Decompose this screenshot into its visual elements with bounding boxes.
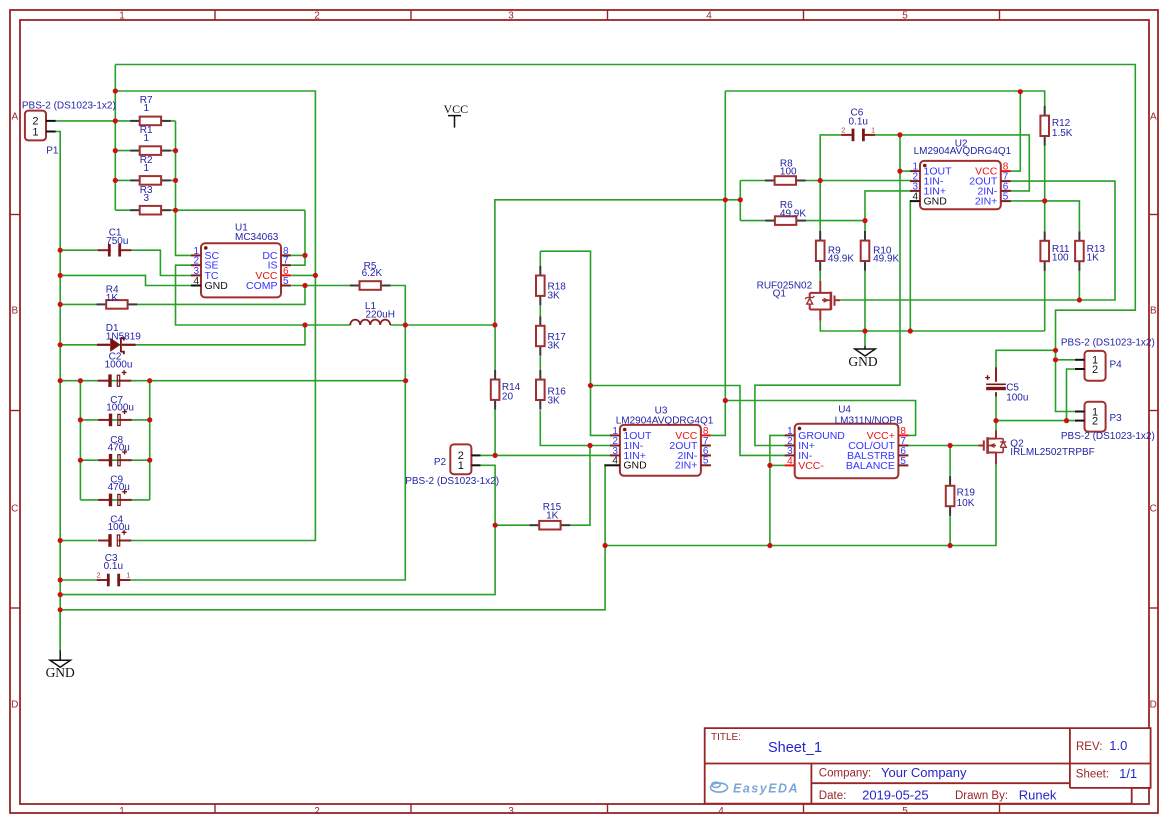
resistor R11 (1044, 231, 1046, 241)
wire P3 pin2 row (996, 420, 1075, 422)
wire C1 row left (60, 249, 98, 251)
wire P4 pin2 riser (1067, 369, 1075, 421)
wire R2 row (115, 179, 175, 181)
resistor R1 (130, 150, 140, 152)
svg-text:2: 2 (97, 570, 101, 579)
svg-text:100: 100 (780, 167, 797, 178)
wire R3 to U1 IS pin7 (291, 210, 305, 265)
resistor R14 (494, 370, 496, 380)
wire row91 / VCC rail x315 (115, 91, 315, 541)
svg-text:B: B (1150, 306, 1157, 317)
svg-text:1K: 1K (546, 511, 559, 522)
svg-text:3: 3 (508, 806, 514, 817)
svg-text:LM2904AVQDRG4Q1: LM2904AVQDRG4Q1 (914, 146, 1012, 157)
wire U2 pin1 stub link (900, 170, 912, 172)
svg-text:LM2904AVQDRG4Q1: LM2904AVQDRG4Q1 (616, 415, 714, 426)
svg-text:3: 3 (144, 193, 150, 204)
svg-text:IRLML2502TRPBF: IRLML2502TRPBF (1010, 447, 1094, 458)
wire R10 column / U2 pin3 (865, 191, 912, 331)
svg-text:A: A (1150, 112, 1157, 123)
resistor R17 (539, 316, 541, 326)
wire U4 VCC- pin4 link (770, 464, 786, 466)
wire U2 GND pin4 riser (910, 201, 911, 331)
resistor R5 (350, 285, 360, 287)
svg-text:1: 1 (144, 163, 150, 174)
wire GND row y545 to Q2 source (605, 464, 996, 545)
wire U1 SC pin1 riser (176, 210, 192, 255)
svg-text:49.9K: 49.9K (780, 209, 806, 220)
svg-text:1000u: 1000u (105, 360, 133, 371)
wire P4 pin1 branch (1056, 359, 1075, 361)
svg-text:1K: 1K (1087, 253, 1100, 264)
wire R3 row (115, 209, 305, 211)
svg-text:2019-05-25: 2019-05-25 (862, 788, 929, 803)
capacitor C7 (98, 419, 111, 421)
svg-text:Sheet:: Sheet: (1076, 769, 1109, 781)
resistor R9 (819, 231, 821, 241)
svg-text:PBS-2 (DS1023-1x2): PBS-2 (DS1023-1x2) (405, 476, 499, 487)
svg-text:BALANCE: BALANCE (846, 460, 895, 472)
svg-text:1.5K: 1.5K (1052, 128, 1073, 139)
svg-text:0.1u: 0.1u (849, 117, 868, 128)
resistor R6 (765, 220, 775, 222)
power VCC symbol (448, 116, 461, 128)
svg-text:3K: 3K (548, 341, 561, 352)
svg-text:10K: 10K (957, 498, 975, 509)
wire R4 row left (60, 303, 98, 305)
svg-text:4: 4 (706, 10, 712, 21)
svg-text:VCC: VCC (443, 102, 468, 116)
wire U3 GND pin4 riser / row610 (60, 466, 605, 610)
wire R11 bottom to GND row (1044, 271, 1046, 331)
svg-text:20: 20 (502, 392, 514, 403)
svg-text:C: C (11, 504, 18, 515)
wire U3 1OUT row to U4 IN- (591, 386, 786, 456)
svg-text:PBS-2 (DS1023-1x2): PBS-2 (DS1023-1x2) (1061, 431, 1155, 442)
wire R4 to U1 COMP pin5 (136, 286, 305, 305)
wire GND stem bottom left (59, 610, 61, 651)
wire rail x60 to U1 GND pin4 (60, 275, 191, 285)
wire R14 column (494, 325, 496, 455)
wire C1 to U1 TC pin3 (131, 250, 192, 275)
svg-text:D: D (1150, 700, 1157, 711)
inductor L1 220uH (350, 320, 390, 325)
wire C5 top branch (996, 350, 1056, 367)
svg-text:5: 5 (902, 806, 908, 817)
wire row91 right segment to R12 (725, 91, 1044, 106)
wire ladder right column (175, 121, 177, 210)
resistor R8 (765, 180, 775, 182)
connector P1 (25, 111, 46, 141)
wire left rail x115 (114, 65, 116, 211)
transistor Q1 RUF025N02 (819, 281, 821, 293)
svg-text:1: 1 (32, 126, 38, 138)
wire C8 row (80, 459, 149, 461)
wire R11 top (1044, 201, 1046, 231)
svg-text:100u: 100u (108, 522, 130, 533)
svg-text:470u: 470u (108, 443, 130, 454)
wire C3 row left (60, 579, 101, 581)
wire U2 2OUT to Q1 gate (840, 181, 1115, 300)
capacitor C1 (98, 249, 111, 251)
svg-text:5: 5 (900, 456, 906, 467)
wire U2 2IN+ row / R13 bracket (1010, 201, 1080, 231)
capacitor C4 (98, 540, 111, 542)
svg-text:Company:: Company: (819, 768, 871, 780)
wire U4 VCC+ bracket (725, 401, 915, 436)
svg-text:49.9K: 49.9K (828, 254, 854, 265)
diode D1 1N5819 (97, 344, 110, 346)
svg-text:1000u: 1000u (106, 403, 134, 414)
svg-text:GND: GND (848, 354, 877, 369)
svg-text:P2: P2 (434, 457, 447, 468)
resistor R16 (539, 370, 541, 380)
wire R13 bottom to 2OUT net (1078, 271, 1080, 300)
wire U4 COL/OUT pin7 to Q2 gate (907, 445, 982, 447)
connector P2 (450, 444, 471, 474)
svg-text:REV:: REV: (1076, 741, 1102, 753)
svg-text:GND: GND (623, 460, 647, 472)
capacitor C6 (841, 134, 854, 136)
wire U1 SE pin2 to L1 row (176, 265, 351, 325)
capacitor C2 (98, 380, 111, 382)
svg-text:U4: U4 (838, 405, 851, 416)
wire rail x725 to U3 VCC pin8 (711, 91, 725, 435)
svg-text:GND: GND (205, 280, 229, 292)
capacitor C3 (97, 579, 110, 581)
wire P1 pin1 to left GND rail x60 (55, 132, 60, 651)
wire R18-R17 link (539, 306, 541, 316)
svg-text:P4: P4 (1110, 359, 1123, 370)
svg-text:PBS-2 (DS1023-1x2): PBS-2 (DS1023-1x2) (1061, 337, 1155, 348)
svg-text:1: 1 (119, 10, 125, 21)
svg-text:4: 4 (193, 276, 199, 287)
svg-text:0.1u: 0.1u (104, 561, 123, 572)
capacitor C9 (98, 499, 111, 501)
wire U4 GROUND pin1 riser (770, 435, 786, 545)
wire R8/R6 bracket (739, 181, 741, 221)
svg-text:P3: P3 (1110, 413, 1123, 424)
svg-text:4: 4 (912, 192, 918, 203)
wire P2 pin2 row to U3 1IN+ (480, 454, 612, 456)
svg-text:1N5819: 1N5819 (106, 331, 141, 342)
svg-text:Drawn By:: Drawn By: (955, 790, 1008, 802)
wire C4 row left (60, 540, 97, 542)
wire D1 row left (60, 344, 97, 346)
svg-text:EasyEDA: EasyEDA (733, 782, 799, 796)
wire R17-R16 link (539, 356, 541, 370)
svg-text:MC34063: MC34063 (235, 232, 279, 243)
svg-text:2: 2 (841, 125, 845, 134)
svg-text:Your Company: Your Company (881, 765, 967, 780)
wire cap bank left column (79, 381, 81, 500)
svg-text:2: 2 (314, 10, 320, 21)
resistor R4 (97, 303, 107, 305)
svg-text:220uH: 220uH (366, 309, 395, 320)
svg-text:P1: P1 (46, 145, 59, 156)
wire cap bank right column (149, 381, 151, 500)
wire R16 bottom to 1IN- bracket (540, 410, 590, 445)
wire R1 row (115, 150, 175, 152)
svg-text:Sheet_1: Sheet_1 (768, 740, 822, 756)
op-amp U4 LM311N/NOPB (795, 424, 899, 479)
svg-text:100u: 100u (1006, 392, 1028, 403)
op-amp U2 LM2904AVQDRG4Q1 (920, 161, 1001, 209)
wire C9 row (80, 499, 149, 501)
resistor R19 (949, 476, 951, 486)
svg-text:1: 1 (144, 133, 150, 144)
wire R18 top lead (539, 251, 541, 266)
svg-text:2: 2 (1092, 415, 1098, 427)
EasyEDA logo (711, 782, 728, 792)
svg-text:49.9K: 49.9K (873, 254, 899, 265)
resistor R3 (130, 209, 140, 211)
wire Q1 source to GND row (820, 321, 1044, 331)
svg-text:GND: GND (924, 196, 948, 208)
connector P3 (1085, 402, 1106, 432)
svg-text:D: D (11, 700, 18, 711)
svg-text:COMP: COMP (246, 280, 278, 292)
svg-text:4: 4 (718, 806, 724, 817)
svg-text:1/1: 1/1 (1119, 766, 1137, 781)
wire R19 column (949, 446, 951, 546)
svg-text:4: 4 (612, 456, 618, 467)
wire P1 pin2 to R7 row (55, 120, 175, 122)
svg-text:R19: R19 (957, 487, 976, 498)
wire R15 riser to 1IN- (495, 446, 590, 526)
wire L1 right to R14 rail (390, 324, 495, 326)
svg-text:3K: 3K (548, 290, 561, 301)
transistor Q2 IRLML2502TRPBF (983, 440, 985, 450)
svg-text:1: 1 (458, 460, 464, 472)
svg-text:LM311N/NOPB: LM311N/NOPB (835, 415, 904, 426)
wire C7 row (80, 419, 149, 421)
svg-text:GND: GND (46, 665, 75, 680)
wire VCC top net P1.2/R7/P4/P3 (115, 65, 1135, 412)
resistor R7 (130, 120, 140, 122)
svg-text:6.2K: 6.2K (362, 268, 383, 279)
svg-text:Runek: Runek (1019, 788, 1057, 803)
svg-text:5: 5 (1003, 192, 1009, 203)
wire COMP row through R5 (127, 286, 406, 581)
svg-text:TITLE:: TITLE: (711, 732, 741, 743)
op-amp U3 LM2904AVQDRG4Q1 (620, 425, 701, 476)
wire C6 left to R9/Q1 rail (820, 135, 843, 281)
svg-text:3K: 3K (548, 395, 561, 406)
svg-text:4: 4 (787, 456, 793, 467)
svg-text:VCC-: VCC- (798, 460, 824, 472)
svg-text:1: 1 (871, 125, 875, 134)
title block (705, 728, 1151, 804)
svg-text:1K: 1K (106, 293, 119, 304)
resistor R2 (130, 179, 140, 181)
svg-text:470u: 470u (108, 482, 130, 493)
wire R8 row to U2 pin2 (740, 180, 911, 182)
wire VCC mid row y200 (495, 200, 740, 325)
capacitor C5 100u (995, 367, 997, 382)
svg-text:1: 1 (119, 806, 125, 817)
svg-text:C: C (1150, 504, 1157, 515)
wire C6 right to U2 pin6 2IN- (863, 135, 1029, 191)
ground symbol near Q1 (855, 346, 875, 356)
svg-text:A: A (11, 112, 18, 123)
svg-text:2IN+: 2IN+ (675, 460, 697, 472)
svg-text:750u: 750u (106, 236, 128, 247)
wire D1 to L1 row (135, 325, 305, 345)
resistor R15 (530, 524, 540, 526)
wire U1 DC pin8 (291, 254, 305, 256)
wire GND symbol stem near Q1 (864, 331, 866, 346)
svg-text:1: 1 (126, 570, 130, 579)
op-amp U1 MC34063 (201, 243, 281, 297)
wire P2 pin1 riser to row595 (60, 465, 495, 594)
svg-text:100: 100 (1052, 253, 1069, 264)
wire U3 1IN- row (590, 445, 612, 447)
wire U3 1OUT to R18 bracket (540, 251, 612, 435)
svg-text:5: 5 (703, 456, 709, 467)
wire U2 VCC pin8 riser (1010, 92, 1020, 171)
svg-text:Date:: Date: (819, 790, 847, 802)
capacitor C8 (98, 459, 111, 461)
svg-text:3: 3 (508, 10, 514, 21)
svg-text:1: 1 (144, 103, 150, 114)
svg-text:1.0: 1.0 (1109, 738, 1127, 753)
connector P4 (1085, 351, 1106, 381)
resistor R18 (539, 266, 541, 276)
resistor R12 (1044, 106, 1046, 116)
svg-text:Q1: Q1 (773, 289, 787, 300)
wire U1 VCC pin6 (291, 274, 315, 276)
wire C2 row (60, 380, 405, 382)
wire R12 bottom to 2IN+ row (1044, 145, 1046, 201)
wire R6 row (740, 220, 865, 222)
ground symbol bottom left (50, 650, 70, 667)
svg-text:2: 2 (314, 806, 320, 817)
svg-text:2: 2 (1092, 364, 1098, 376)
wire U2 1OUT riser to U4 IN+ (755, 135, 900, 446)
svg-text:5: 5 (902, 10, 908, 21)
wire C5 bottom to Q2 drain (995, 396, 997, 431)
svg-text:B: B (11, 306, 18, 317)
svg-text:5: 5 (283, 276, 289, 287)
junction dots (113, 88, 118, 93)
svg-text:2IN+: 2IN+ (975, 196, 997, 208)
resistor R13 (1078, 231, 1080, 241)
resistor R10 (864, 231, 866, 241)
